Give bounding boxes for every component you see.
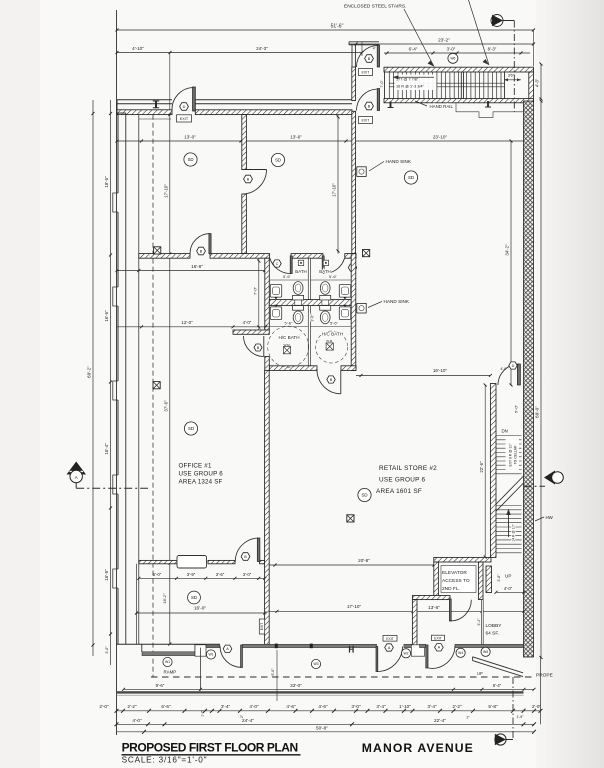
west wall of stair zone lower (352, 111, 356, 253)
svg-text:16'-6": 16'-6" (104, 310, 109, 322)
window tag W4 (456, 648, 465, 657)
svg-text:5'-0": 5'-0" (514, 404, 519, 413)
dim 4'-0" corridor base (495, 586, 526, 594)
toilet bath SW (293, 306, 304, 311)
top wall outer band east (195, 99, 352, 101)
enclosed steel stairs label (344, 4, 434, 67)
svg-text:3'-4": 3'-4" (376, 704, 386, 709)
storefront band east (455, 644, 524, 647)
exit sign vestibule vertical (259, 619, 264, 634)
svg-text:OFFICE #1: OFFICE #1 (179, 463, 212, 470)
svg-text:23'-2": 23'-2" (438, 37, 450, 42)
svg-text:3'-4": 3'-4" (427, 704, 437, 709)
svg-text:AREA 1324 SF: AREA 1324 SF (179, 479, 223, 486)
dim row 17'-10" 13'-6" south (269, 604, 525, 613)
bottom dim row A (99, 704, 542, 720)
svg-text:EXT 8 R @ 10": EXT 8 R @ 10" (509, 443, 513, 467)
dim 34'-2" interior right (505, 140, 513, 387)
door C bath left (270, 256, 292, 274)
svg-text:EXIT: EXIT (260, 623, 264, 631)
svg-text:B: B (247, 177, 250, 181)
svg-text:12'-0": 12'-0" (181, 320, 193, 325)
exit sign top left (177, 115, 192, 122)
svg-text:BATH: BATH (295, 269, 306, 274)
entry door A west (220, 645, 242, 668)
SD detector retail mid (358, 488, 371, 501)
SD detector office2 top (271, 153, 284, 166)
interior trim line (139, 118, 171, 120)
svg-text:5'-6": 5'-6" (285, 321, 294, 326)
SD detector office1 mid (184, 422, 197, 435)
svg-text:17'-10": 17'-10" (163, 184, 168, 198)
storefront band west of door (206, 644, 220, 647)
hand rail label (415, 101, 453, 109)
panel box office lower (153, 382, 160, 389)
stair enclosure east wall (529, 72, 534, 101)
elevator south wall (412, 596, 450, 600)
svg-text:A: A (75, 475, 78, 480)
dashed canopy line (152, 115, 154, 677)
flush valve left (295, 300, 302, 305)
door B partition (242, 170, 267, 195)
svg-text:3'-9": 3'-9" (187, 572, 196, 577)
svg-text:D: D (183, 105, 186, 109)
svg-text:B: B (368, 104, 371, 108)
SD detector office1 top (184, 153, 197, 166)
svg-text:3'-6": 3'-6" (216, 572, 225, 577)
toilet bath NW (293, 295, 304, 300)
elevator west wall (434, 562, 439, 600)
exit sign stair lower (359, 117, 373, 124)
svg-text:4'-6": 4'-6" (286, 704, 296, 709)
corridor west wall (490, 384, 496, 558)
svg-text:6'-6": 6'-6" (161, 704, 171, 709)
entry door A lobby (426, 645, 455, 668)
door tag B office (241, 553, 250, 561)
svg-text:51'-6": 51'-6" (331, 23, 344, 29)
door B hc bath right (317, 370, 341, 394)
svg-text:SD: SD (187, 157, 193, 162)
bath center wall lower (308, 306, 310, 366)
entry door A retail (376, 647, 403, 672)
svg-text:TO CELLAR: TO CELLAR (514, 445, 518, 464)
top exterior wall east segment (195, 110, 352, 115)
svg-text:A: A (388, 646, 391, 650)
stair riser note (395, 75, 437, 91)
svg-text:B: B (257, 346, 260, 350)
window tag W5 (481, 647, 490, 656)
svg-text:2'-2": 2'-2" (127, 704, 137, 709)
svg-text:PROPE: PROPE (536, 673, 553, 679)
svg-text:24'-4": 24'-4" (242, 718, 254, 723)
svg-text:HAND SINK: HAND SINK (384, 299, 410, 304)
stair treads east flight (467, 72, 501, 99)
svg-text:4'-10": 4'-10" (132, 46, 144, 51)
svg-text:4'-3": 4'-3" (535, 78, 540, 87)
svg-text:W4: W4 (458, 651, 463, 655)
svg-text:C: C (276, 262, 279, 266)
door D main entry top (172, 87, 195, 111)
svg-text:8'-3": 8'-3" (488, 46, 497, 51)
door B stair lower (356, 89, 379, 111)
svg-text:2'-0": 2'-0" (532, 704, 542, 709)
divider wall office/retail (265, 370, 270, 644)
svg-text:24'-3": 24'-3" (256, 46, 268, 51)
door tag B stair upper (365, 55, 374, 63)
dim 16'-8" corridor row (116, 264, 267, 272)
section marker west (67, 462, 149, 489)
window tag W3 (311, 659, 320, 668)
SD detector retail top (404, 171, 417, 184)
svg-text:64 SF.: 64 SF. (486, 631, 500, 637)
door tag D corridor (509, 362, 517, 369)
door tag A west (223, 645, 232, 652)
bath top wall seg4 (345, 254, 356, 259)
elevator door (449, 599, 471, 621)
svg-text:20'-8": 20'-8" (358, 558, 370, 563)
storefront band middle (242, 644, 376, 647)
sink bath SE (339, 307, 350, 320)
storefront band lobby west (420, 644, 426, 647)
door tag C right (348, 264, 356, 271)
sink bath NW (270, 285, 281, 298)
svg-text:3'-8": 3'-8" (497, 574, 501, 582)
door tag C left (273, 260, 281, 267)
dim 5'-6" SW (269, 321, 308, 327)
section marker bottom (495, 734, 513, 745)
bath vertical dim 7'-0" (253, 258, 261, 330)
extension line storefront x277 (276, 650, 278, 701)
label lobby (486, 623, 503, 637)
svg-text:W5: W5 (483, 650, 488, 654)
panel box bath corner (363, 250, 370, 257)
svg-text:AREA 1601 SF: AREA 1601 SF (376, 488, 422, 495)
svg-text:SD: SD (408, 175, 414, 180)
sink bath NE (339, 285, 350, 298)
svg-text:A: A (438, 646, 441, 650)
svg-text:DN: DN (502, 429, 508, 434)
corridor up arrow (506, 509, 510, 538)
panel box retail (347, 515, 354, 522)
west wall of stair zone (352, 67, 356, 101)
dim row office south (137, 572, 266, 580)
toilet bath NE (320, 295, 331, 300)
svg-text:A: A (226, 647, 229, 651)
svg-text:5'-0": 5'-0" (271, 668, 275, 676)
door B corridor top (190, 234, 211, 254)
svg-text:16'-8": 16'-8" (191, 264, 203, 269)
svg-text:B: B (244, 555, 247, 559)
corridor west wall lower (486, 566, 492, 593)
svg-text:23'-10": 23'-10" (433, 134, 448, 139)
elevator east wall (478, 562, 483, 600)
exit sign lobby door (432, 635, 445, 640)
office south wall seg2 (208, 560, 235, 563)
svg-text:13'-0": 13'-0" (184, 134, 196, 139)
svg-text:1'-2": 1'-2" (201, 709, 205, 717)
wall break mark (155, 101, 157, 108)
svg-text:W3: W3 (313, 662, 318, 666)
svg-text:3'-4": 3'-4" (221, 704, 231, 709)
pier wall below elevator (412, 600, 417, 648)
svg-text:UP: UP (477, 671, 483, 676)
svg-text:H/C BATH: H/C BATH (278, 335, 299, 340)
svg-text:37'-6": 37'-6" (163, 400, 168, 412)
svg-text:6'-4": 6'-4" (493, 683, 502, 688)
svg-text:16'-5": 16'-5" (104, 569, 109, 581)
svg-text:5'-0": 5'-0" (153, 572, 162, 577)
svg-text:HAND RAIL: HAND RAIL (430, 104, 454, 109)
svg-text:4'-0": 4'-0" (132, 718, 142, 723)
column mark left (390, 102, 392, 108)
left exterior wall outer face (117, 113, 119, 193)
bath bottom wall seg2 (341, 366, 356, 371)
svg-text:18'-6": 18'-6" (104, 176, 109, 188)
window tag W1 west (163, 657, 172, 666)
top dim row 4'-10" / 24'-3" (117, 52, 362, 54)
office south wall seg1 (139, 560, 177, 563)
stair treads west flight (389, 72, 458, 99)
storefront west window sill band (142, 652, 195, 656)
svg-text:B: B (200, 249, 203, 253)
svg-text:2'-0": 2'-0" (99, 704, 109, 709)
svg-text:SCALE: 3/16"=1'-0": SCALE: 3/16"=1'-0" (122, 756, 208, 765)
svg-text:16'-10": 16'-10" (433, 368, 448, 373)
svg-text:4'-0": 4'-0" (504, 586, 513, 591)
window tag W2 (401, 649, 410, 658)
dim 22'-6" corridor (479, 384, 487, 559)
svg-text:PROPOSED FIRST FLOOR PLAN: PROPOSED FIRST FLOOR PLAN (122, 741, 298, 755)
door tag A lobby (435, 644, 444, 651)
door tag B partition (244, 175, 253, 183)
dim 4'-3" right (535, 63, 543, 101)
svg-text:B: B (330, 378, 333, 382)
storefront pier (195, 645, 206, 656)
svg-text:4'-0": 4'-0" (249, 704, 259, 709)
bath top wall seg2 (210, 254, 270, 259)
svg-text:3'-0": 3'-0" (243, 572, 252, 577)
svg-text:5'-6": 5'-6" (283, 274, 292, 279)
storefront band east of retail door (404, 644, 413, 647)
floor drain right (323, 260, 328, 265)
svg-text:UP: UP (505, 574, 511, 579)
dim 20'-8" retail (269, 558, 435, 567)
svg-text:33'-0": 33'-0" (290, 683, 302, 688)
top wall outer band west (117, 99, 172, 101)
partition wall office1/office2 upper (242, 115, 247, 170)
door tag B stair lower (365, 102, 374, 110)
centerline bottom (512, 677, 514, 740)
left segment dim line (110, 100, 112, 665)
svg-text:17T @ 7 7/8": 17T @ 7 7/8" (396, 78, 419, 82)
column H middle (350, 646, 354, 653)
svg-text:69'-0": 69'-0" (535, 406, 540, 418)
partition wall office1/office2 lower (242, 194, 247, 254)
floor drain left (298, 260, 303, 265)
interior wall line office west (138, 115, 140, 644)
vertical dim line 17'-10" / 37'-6" (169, 115, 171, 644)
stair mid divider (460, 72, 462, 99)
door B stair upper (356, 45, 379, 67)
svg-text:4': 4' (373, 47, 376, 51)
dim 12'-0" and 4'-0" bath jog (117, 320, 269, 329)
property dashed line (151, 676, 534, 678)
top exterior wall west segment (117, 110, 172, 115)
leader to east flight (469, 0, 490, 65)
window tag W6 (448, 53, 458, 63)
svg-text:W6: W6 (450, 57, 455, 61)
reception counter (177, 556, 207, 569)
door D corridor (498, 364, 520, 385)
svg-text:3'-0": 3'-0" (447, 46, 456, 51)
section marker top (491, 15, 514, 27)
dim 16'-10" retail east (356, 368, 492, 377)
office south wall seg3 (260, 560, 265, 563)
dim 33'-0" / 6'-4" (201, 683, 536, 691)
svg-text:14 R @ 10": 14 R @ 10" (512, 523, 516, 541)
toilet bath SE (320, 306, 331, 311)
bath mid wall (269, 300, 351, 306)
vestibule west wall inner line (136, 564, 138, 644)
svg-text:16 R @ 1'-3 3/4": 16 R @ 1'-3 3/4" (396, 85, 425, 89)
svg-text:HAND SINK: HAND SINK (386, 159, 412, 164)
svg-text:9'-6": 9'-6" (156, 683, 165, 688)
svg-text:7'-0": 7'-0" (253, 286, 258, 295)
svg-text:34'-2": 34'-2" (505, 244, 510, 256)
label HW (535, 515, 554, 521)
svg-text:B: B (368, 57, 371, 61)
dim 5'-6" NE (310, 274, 351, 280)
svg-text:5'-8": 5'-8" (488, 704, 498, 709)
door B hc bath left (244, 336, 264, 357)
svg-text:USE GROUP 6: USE GROUP 6 (379, 477, 426, 484)
stair handrail lines (389, 82, 504, 84)
svg-text:50'-8": 50'-8" (316, 725, 328, 730)
svg-text:5'-6": 5'-6" (329, 274, 338, 279)
svg-text:3'-0": 3'-0" (351, 704, 361, 709)
svg-text:17'-10": 17'-10" (332, 183, 337, 197)
svg-text:5'-6": 5'-6" (330, 321, 339, 326)
door tag B corridor (197, 247, 206, 255)
label elevator (442, 570, 470, 592)
corridor stair treads up (496, 506, 521, 553)
stair dim 23'-2" (349, 43, 534, 45)
section marker east (524, 471, 564, 487)
mullion mark 1 (275, 644, 278, 649)
stair enclosure west end (384, 72, 386, 99)
svg-text:W2: W2 (403, 652, 408, 656)
SD detector vestibule (188, 591, 201, 604)
door tag D (180, 103, 189, 111)
svg-text:18'-2": 18'-2" (162, 593, 167, 604)
svg-text:EXIT: EXIT (386, 637, 394, 641)
door C bath right (322, 256, 344, 274)
svg-text:13'-6": 13'-6" (290, 134, 302, 139)
svg-text:1'-10": 1'-10" (399, 704, 411, 709)
sink bath SW (270, 307, 281, 320)
hand sink upper (357, 159, 412, 176)
bath west wall upper (265, 258, 270, 330)
centerline top (513, 21, 515, 112)
svg-text:W1: W1 (165, 660, 170, 664)
left property line (116, 10, 118, 735)
hand sink lower (357, 299, 410, 313)
svg-text:H/C BATH: H/C BATH (322, 332, 343, 337)
svg-text:4'-0": 4'-0" (500, 367, 508, 371)
svg-text:EXIT: EXIT (434, 637, 442, 641)
door tag A retail (385, 644, 394, 651)
svg-text:USE GROUP 6: USE GROUP 6 (179, 471, 224, 478)
dim 5'-6" NW (269, 274, 308, 280)
wm box left (283, 343, 290, 354)
svg-text:16'-0": 16'-0" (194, 606, 207, 612)
storefront west window jambs (141, 644, 143, 652)
svg-text:2ND FL.: 2ND FL. (442, 586, 460, 592)
stoop rect lobby door (411, 645, 424, 656)
label office1 (179, 463, 224, 486)
label retail2 (376, 465, 437, 495)
bottom dim row C (117, 725, 536, 733)
stair vestibule west wall upper (351, 45, 353, 67)
svg-text:HW: HW (546, 515, 554, 520)
stair break lines (496, 476, 523, 504)
svg-text:3'-0": 3'-0" (105, 646, 109, 654)
left exterior wall inner face (125, 113, 127, 644)
svg-text:W.M.: W.M. (284, 343, 291, 347)
svg-text:6'-4": 6'-4" (409, 46, 418, 51)
ramp east edge (200, 648, 202, 691)
svg-text:LOBBY: LOBBY (486, 623, 503, 629)
svg-text:W.M.: W.M. (326, 339, 333, 343)
svg-text:16'-4": 16'-4" (104, 443, 109, 455)
svg-text:EXIT: EXIT (362, 119, 371, 123)
elevator north wall (434, 557, 491, 562)
flush valve right (322, 300, 329, 305)
window tag W1 door (206, 650, 215, 659)
svg-text:4'-0": 4'-0" (243, 320, 252, 325)
svg-text:RAMP: RAMP (164, 670, 177, 675)
turning circle hc right (316, 331, 348, 363)
svg-text:1'-9": 1'-9" (517, 715, 525, 719)
title proposed first floor plan (122, 741, 301, 755)
sidewalk curb (117, 691, 524, 693)
stair direction arrow (397, 76, 434, 78)
elevator cab (441, 566, 476, 593)
dim 5'-6" SE (310, 321, 351, 327)
bath center wall upper (308, 258, 310, 299)
svg-text:3'-4": 3'-4" (477, 618, 481, 626)
dim row 13'-0" 13'-6" 23'-10" (117, 140, 529, 142)
svg-text:SD: SD (361, 493, 367, 498)
svg-text:3'-0": 3'-0" (311, 314, 315, 322)
storefront west window head (117, 643, 220, 645)
stair vestibule top wall (349, 41, 379, 43)
ramp diagonal east (473, 657, 523, 677)
door tag B hc right (327, 376, 335, 383)
stair enclosure bottom wall (384, 99, 534, 103)
svg-text:D: D (512, 364, 515, 368)
exit sign retail door (383, 636, 397, 642)
column mark right (487, 101, 489, 107)
corridor stair treads down (496, 436, 521, 474)
svg-text:69'-2": 69'-2" (87, 366, 92, 378)
svg-text:ACCESS TO: ACCESS TO (442, 578, 470, 584)
svg-text:EXIT: EXIT (362, 71, 371, 75)
stair enclosure top wall (384, 67, 534, 72)
exit sign stair upper (359, 69, 373, 76)
dim 9'-6" (122, 683, 202, 691)
svg-text:22'-6": 22'-6" (479, 461, 484, 473)
